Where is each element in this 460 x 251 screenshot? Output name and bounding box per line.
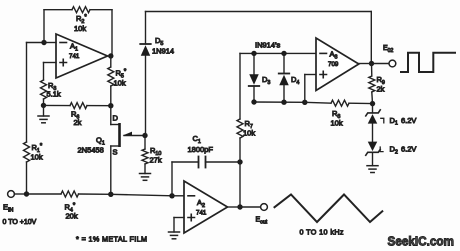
wire: A3 output to terminal (372, 63, 389, 65)
svg-text:D5: D5 (155, 36, 163, 47)
terminal E_02 (383, 45, 396, 67)
svg-text:10k: 10k (31, 153, 43, 162)
wire: D5 to gate node (145, 56, 147, 136)
svg-text:6.2V: 6.2V (401, 145, 416, 154)
resistor R3 5.1k (41, 80, 61, 99)
resistor R9 2k (369, 64, 385, 104)
svg-text:D: D (113, 114, 119, 123)
wire: E_IN input to A1 inverting input (via R1) (27, 43, 45, 195)
label IN914's (255, 41, 281, 50)
op-amp U1 A1 741 (56, 34, 108, 78)
wire: A3 output top rail (146, 12, 372, 64)
wire: D2 to ground (372, 153, 374, 166)
watermark SeekIC.com (388, 234, 455, 249)
op-amp U2 A2 741 (184, 181, 228, 233)
resistor R7 10k (237, 53, 255, 162)
svg-text:20k: 20k (66, 212, 78, 221)
ground: below D2 (367, 166, 378, 173)
svg-text:1800pF: 1800pF (188, 145, 214, 154)
node: A2 inverting input junction (169, 193, 184, 198)
ground: below R3 (38, 105, 49, 122)
svg-text:SeekIC.com: SeekIC.com (388, 234, 455, 249)
svg-text:10k: 10k (243, 129, 255, 138)
node: D3 top (251, 51, 256, 56)
wire: junction down to A2 output (239, 162, 241, 207)
svg-text:C1: C1 (193, 134, 201, 145)
svg-text:0 TO +10V: 0 TO +10V (3, 219, 37, 226)
wire: R3 to ground node (43, 99, 45, 105)
label 0 TO 10 kHz (300, 228, 344, 237)
svg-text:2k: 2k (377, 85, 385, 94)
svg-text:1N914: 1N914 (152, 47, 174, 56)
svg-text:IN914’s: IN914’s (255, 41, 281, 50)
wire: A1 non-inverting input to R3 (44, 63, 57, 81)
resistor R10 27k (142, 136, 162, 165)
wire: to A3 non-inverting input (305, 75, 316, 103)
resistor R1 10k (24, 142, 43, 162)
node: D4 top (281, 51, 286, 56)
terminal E_out (256, 204, 268, 226)
wire: source lead to input rail (110, 146, 112, 194)
wire: A3 inverting input rail (240, 52, 316, 54)
wire: diode bottom rail (254, 101, 305, 103)
node: D4 bottom (281, 100, 286, 105)
diode D4 1N914 (279, 53, 300, 102)
op-amp U3 A3 709 (316, 38, 359, 91)
diode D1 6.2V zener (366, 104, 417, 127)
svg-text:D4: D4 (291, 75, 299, 86)
note * = 1% METAL FILM (76, 235, 147, 244)
wire: top rail down to D5 (145, 12, 147, 44)
node: A3 non-inverting junction (302, 100, 307, 105)
waveform: square wave output (401, 53, 455, 72)
diode D5 1N914 (140, 36, 174, 56)
waveform: triangle wave output (275, 195, 383, 223)
svg-text:E02: E02 (383, 45, 393, 54)
svg-text:Eout: Eout (256, 217, 268, 226)
node: A2 output (228, 204, 243, 209)
wire: A2 output to terminal (240, 206, 261, 208)
wire: A1 feedback riser (43, 10, 45, 43)
svg-text:D2: D2 (390, 145, 398, 156)
transistor Q1 2N5458 JFET (78, 114, 146, 157)
svg-text:0 TO 10 kHz: 0 TO 10 kHz (300, 228, 344, 237)
svg-text:741: 741 (196, 210, 207, 217)
node: A3 output (359, 61, 374, 66)
svg-text:10k: 10k (114, 79, 126, 88)
ground: below R10 (140, 164, 151, 180)
svg-text:10k: 10k (331, 119, 343, 128)
wire: input rail to A2 inverting input (111, 194, 172, 196)
svg-text:* = 1% METAL FILM: * = 1% METAL FILM (76, 235, 147, 244)
capacitor C1 1800pF (172, 134, 240, 196)
node: D3 bottom (251, 99, 256, 104)
svg-text:D3: D3 (262, 75, 270, 86)
node: drain junction (108, 103, 113, 108)
svg-text:EIN: EIN (3, 203, 14, 214)
svg-text:709: 709 (328, 61, 339, 68)
resistor R8 10k (305, 100, 373, 127)
svg-text:10k: 10k (74, 24, 86, 33)
resistor R5 10k (108, 56, 127, 106)
wire: feedback top left segment (44, 9, 72, 11)
diode D3 1N914 (249, 53, 271, 102)
terminal E_IN (3, 191, 37, 226)
resistor R4 20k (27, 191, 111, 221)
wire: feedback top right segment (90, 10, 112, 56)
wire: drain lead (111, 106, 119, 125)
node: R8/R9/D1 junction (370, 101, 375, 106)
resistor R6 2k (44, 103, 111, 127)
svg-text:27k: 27k (150, 156, 162, 165)
ground: A2 non-inverting input (169, 232, 180, 239)
node: R3/R6 ground junction (41, 103, 46, 108)
node: A1 output (108, 53, 114, 58)
wire: A2 non-inverting input to ground (174, 218, 184, 233)
svg-text:D1: D1 (390, 116, 398, 127)
svg-text:2k: 2k (74, 118, 82, 127)
svg-text:5.1k: 5.1k (47, 90, 61, 99)
node: gate junction (142, 133, 147, 138)
node: E_IN/R1 junction (24, 191, 29, 196)
wire: E_IN to R4 (14, 193, 26, 195)
svg-text:S: S (113, 148, 118, 157)
svg-text:741: 741 (69, 53, 80, 60)
diode D2 6.2V zener (366, 124, 417, 156)
svg-text:6.2V: 6.2V (401, 116, 416, 125)
resistor R2 10k feedback (72, 7, 90, 33)
node: A1 inverting input junction (41, 40, 56, 45)
svg-text:2N5458: 2N5458 (78, 146, 104, 155)
node: C1/R7 junction (237, 159, 242, 164)
node: source/input junction (108, 192, 113, 197)
